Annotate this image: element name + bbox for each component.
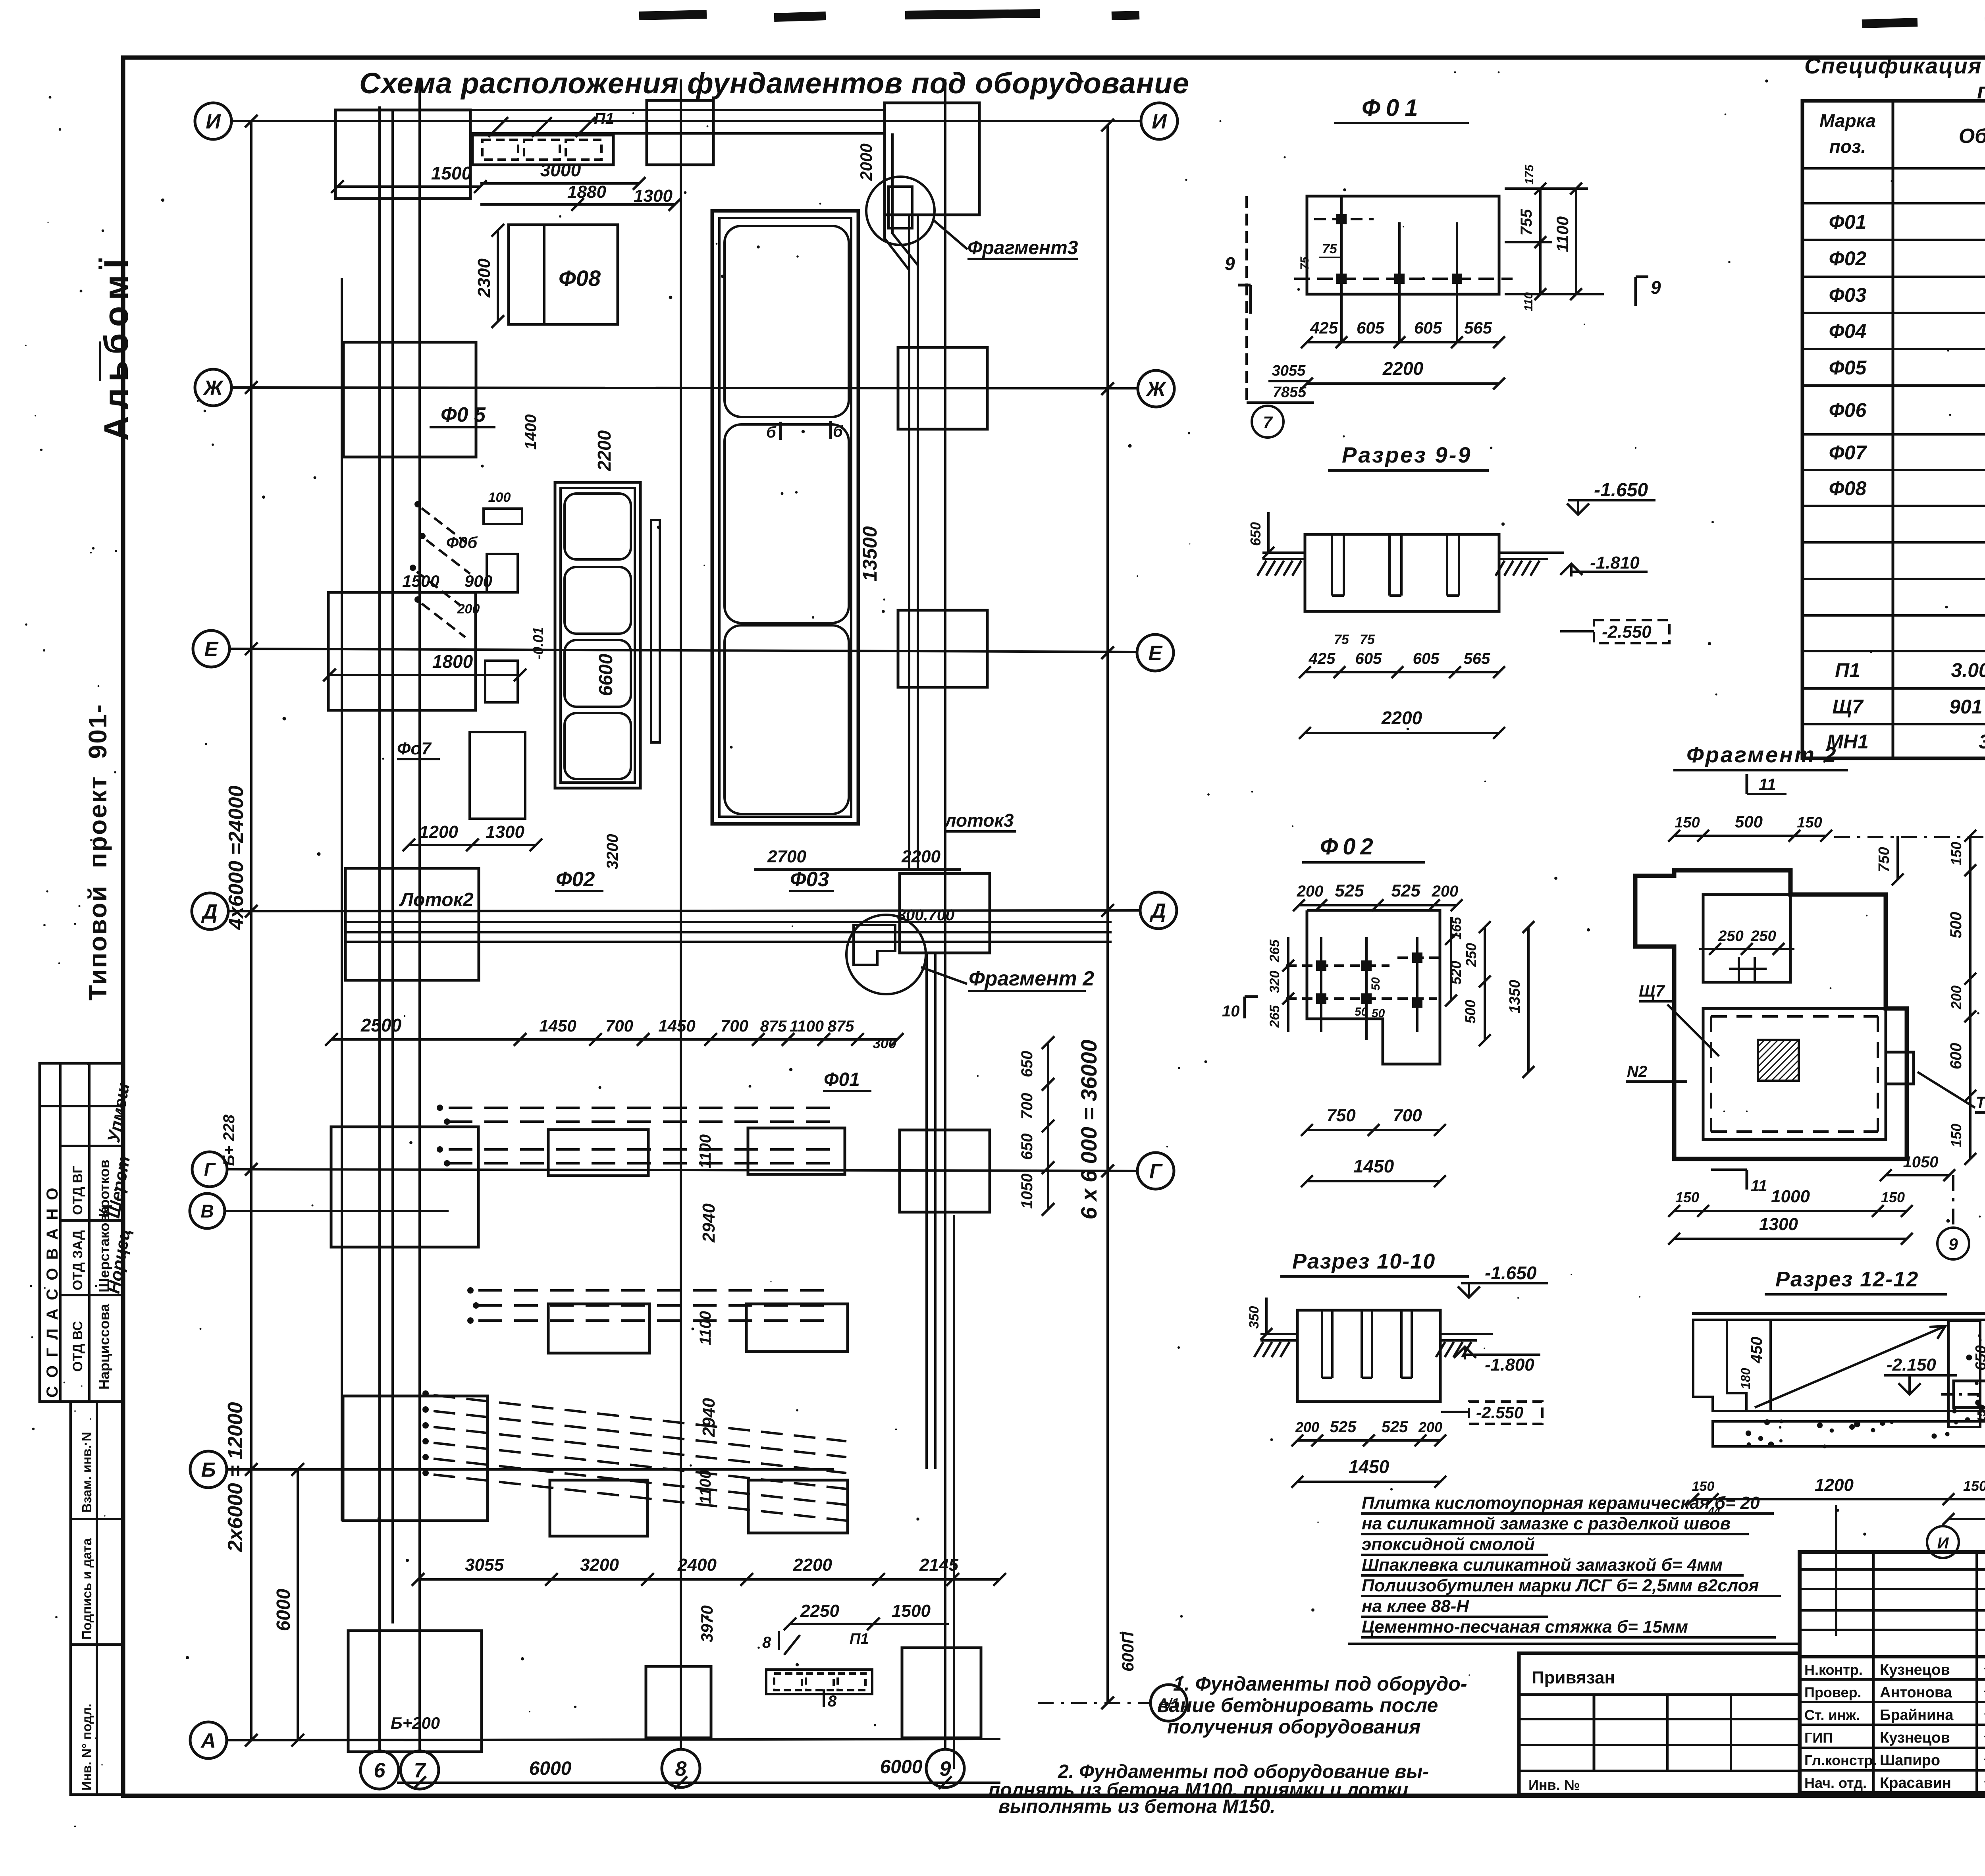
svg-text:8: 8: [828, 1693, 837, 1710]
svg-text:875: 875: [828, 1018, 854, 1035]
svg-text:Ф03: Ф03: [1829, 284, 1867, 306]
svg-text:на клее 88-Н: на клее 88-Н: [1362, 1596, 1469, 1616]
svg-text:1000: 1000: [1771, 1187, 1810, 1206]
svg-text:Спецификация элементов к схеме: Спецификация элементов к схеме расположе…: [1804, 53, 1985, 78]
title block revision rows (upper left): [1800, 1568, 1985, 1571]
svg-text:150: 150: [1881, 1189, 1905, 1205]
section 10-10 level -1.650: [1458, 1286, 1480, 1298]
svg-text:Е: Е: [204, 638, 219, 661]
svg-text:В: В: [200, 1201, 214, 1222]
svg-text:вание бетонировать после: вание бетонировать после: [1157, 1694, 1438, 1716]
pipe drop from И trench (fragment 3 area): [885, 133, 909, 381]
dim 3000 top: [480, 182, 639, 185]
approval table СОГЛАСОВАНО: [40, 1063, 135, 1402]
svg-text:Привязан: Привязан: [1532, 1668, 1615, 1687]
title block outer: [1800, 1552, 1985, 1793]
section 10-10 level -1.800: [1454, 1347, 1476, 1358]
anchor dots group near Ф07: [414, 501, 421, 507]
svg-text:50: 50: [1369, 977, 1382, 991]
leader line from notes to section: [1835, 1505, 1837, 1636]
svg-text:180: 180: [1738, 1368, 1753, 1389]
svg-text:1450: 1450: [539, 1016, 576, 1035]
svg-text:получения оборудования: получения оборудования: [1167, 1716, 1420, 1738]
stray scan marks top edge: [639, 13, 1985, 24]
dim chain bottom of upper half 2500 etc: [331, 1038, 897, 1041]
fragment 2 inner main room: [1703, 1008, 1886, 1139]
svg-text:Фрагмент 2: Фрагмент 2: [969, 967, 1094, 990]
axis И right circle: [1141, 103, 1178, 139]
big tank cell 1: [725, 226, 849, 417]
section 10-10 ground left: [1260, 1333, 1297, 1335]
fragment 2 pit walls outer: [1635, 870, 1907, 1159]
svg-text:И: И: [1937, 1535, 1949, 1552]
svg-text:Лоток2: Лоток2: [399, 889, 474, 910]
svg-text:650: 650: [1973, 1345, 1985, 1370]
svg-text:250: 250: [1750, 928, 1776, 945]
foundation pair row3 right: [748, 1480, 848, 1533]
section 10-10 level -2.550: [1469, 1402, 1542, 1424]
svg-text:9: 9: [1651, 277, 1661, 298]
svg-text:3055: 3055: [465, 1555, 504, 1575]
left overall dimension line: [250, 121, 252, 1740]
column footing И/8: [647, 100, 713, 165]
svg-text:700: 700: [1393, 1106, 1422, 1125]
svg-text:Б: Б: [201, 1459, 216, 1482]
svg-text:3200: 3200: [604, 834, 621, 870]
axis Е right circle: [1137, 634, 1174, 671]
svg-text:150: 150: [1948, 842, 1964, 866]
svg-text:Инв. №: Инв. №: [1528, 1777, 1580, 1793]
plan: horizontal axis И: [232, 120, 1140, 122]
svg-text:-2.550: -2.550: [1602, 622, 1652, 642]
anchor dashed group A: [437, 1105, 443, 1111]
plan: column axis 9: [953, 1215, 955, 1769]
svg-text:Брайнина: Брайнина: [1880, 1707, 1954, 1724]
section 10-10 body: [1297, 1310, 1440, 1402]
foundation rect at Е axis: [328, 592, 476, 710]
big tank outer wall: [712, 211, 858, 824]
column footing 9 bottom: [902, 1648, 981, 1738]
column square Г/9: [900, 1130, 990, 1212]
svg-text:Инв. N° подл.: Инв. N° подл.: [79, 1704, 94, 1791]
svg-text:Д: Д: [201, 900, 218, 924]
detail Ф02 plan outline: [1307, 910, 1440, 1064]
detail Ф02 top dims 200 525 525 200: [1299, 904, 1457, 906]
plan: axis А/1 stub: [1038, 1702, 1151, 1704]
svg-text:1100: 1100: [697, 1470, 714, 1504]
svg-text:4х6000 =24000: 4х6000 =24000: [225, 785, 248, 930]
small foundation below Е: [485, 661, 518, 702]
svg-text:1300: 1300: [486, 822, 524, 842]
dim 2250 1500 bottom: [790, 1623, 949, 1625]
svg-text:Б+200: Б+200: [391, 1714, 440, 1732]
detail Ф02 left dim chain 265 320 265: [1287, 937, 1289, 1032]
svg-text:6000: 6000: [529, 1758, 572, 1779]
svg-text:Е: Е: [1149, 642, 1163, 665]
svg-text:лоток3: лоток3: [944, 810, 1014, 831]
svg-text:75: 75: [1334, 632, 1349, 647]
section 12-12 left wall: [1693, 1320, 1746, 1411]
svg-text:2200: 2200: [901, 847, 940, 866]
plan: column axis 7: [418, 79, 421, 1751]
plan: column axis 6: [378, 106, 381, 1751]
fragment 2 right dim chain: [1969, 836, 1972, 1159]
svg-text:Ф08: Ф08: [559, 266, 601, 291]
section 9-9 level -2.550 dashed box: [1594, 620, 1669, 643]
svg-text:2250: 2250: [800, 1601, 839, 1621]
svg-text:600: 600: [1947, 1043, 1965, 1070]
svg-text:565: 565: [1464, 318, 1492, 337]
svg-text:б: б: [766, 424, 777, 441]
foundation Ф01 row2 right: [746, 1304, 848, 1352]
section 12-12 right wall stippled: [1948, 1321, 1980, 1427]
svg-text:6 х 6 000 = 36000: 6 х 6 000 = 36000: [1076, 1039, 1101, 1219]
svg-text:1800: 1800: [432, 651, 473, 672]
svg-text:150: 150: [1692, 1479, 1715, 1494]
svg-text:1450: 1450: [1349, 1456, 1389, 1477]
svg-text:Ж: Ж: [1145, 378, 1167, 401]
svg-text:165: 165: [1449, 917, 1464, 940]
svg-text:Антонова: Антонова: [1880, 1684, 1952, 1701]
svg-text:Ф01: Ф01: [824, 1069, 860, 1090]
svg-text:50: 50: [1372, 1007, 1385, 1020]
svg-text:Ф02: Ф02: [556, 868, 595, 891]
detail Ф01 dim 2200: [1307, 382, 1499, 385]
fragment 2 hatch square: [1758, 1040, 1799, 1081]
svg-text:1880: 1880: [567, 182, 606, 202]
detail Ф02 right dims 165 520: [1450, 917, 1452, 1001]
svg-text:Фрагмент3: Фрагмент3: [967, 237, 1078, 258]
svg-text:И: И: [206, 110, 221, 133]
svg-text:6000: 6000: [273, 1589, 294, 1631]
svg-text:901 КЖИ. Щ4-03: 901 КЖИ. Щ4-03: [1949, 696, 1985, 718]
svg-text:500: 500: [1462, 1000, 1478, 1024]
fragment 2 top dims 150 500 150: [1674, 835, 1826, 837]
svg-text:605: 605: [1413, 650, 1440, 667]
dim 2300 vertical: [497, 230, 499, 322]
svg-text:525: 525: [1330, 1418, 1357, 1436]
svg-text:13500: 13500: [859, 526, 881, 581]
inventory strip: Взам.инв.N / Подпись и дата / Инв.N подл.: [71, 1402, 123, 1795]
plan: horizontal axis Д: [228, 910, 1141, 911]
lotok2 rect: [345, 868, 479, 980]
svg-text:450: 450: [1748, 1337, 1765, 1364]
project label: Типовой проект 901- (vertical): [83, 703, 112, 1001]
svg-text:200: 200: [1297, 883, 1324, 900]
column square Ж/9: [898, 347, 987, 429]
svg-text:Цементно-песчаная стяжка б=: Цементно-песчаная стяжка б= 15мм: [1362, 1617, 1688, 1637]
small tank outer: [555, 482, 640, 788]
section 12-12 axis circle И: [1927, 1526, 1959, 1558]
svg-text:П1: П1: [850, 1631, 869, 1647]
svg-text:6000: 6000: [880, 1756, 923, 1778]
anchor dashed diagonal group C: [422, 1390, 429, 1397]
section 12-12 diagonal strut: [1755, 1326, 1945, 1407]
fragment 2 anchor marks top room: [1738, 957, 1740, 982]
section 10-10 dims 200 525 525 200: [1297, 1439, 1440, 1442]
svg-text:700: 700: [605, 1016, 633, 1035]
axis Г right circle: [1137, 1153, 1174, 1189]
svg-text:200: 200: [1418, 1419, 1442, 1435]
svg-text:1200: 1200: [419, 822, 458, 842]
svg-text:200: 200: [457, 602, 480, 617]
svg-text:750: 750: [1326, 1106, 1356, 1125]
svg-text:3.006-2 Вып.II-2: 3.006-2 Вып.II-2: [1951, 659, 1985, 681]
foundation rect at И axis cols 6-7: [335, 110, 470, 199]
dim chain 1050 650 700 650 vertical: [1047, 1043, 1049, 1209]
svg-text:2700: 2700: [767, 847, 806, 866]
svg-text:Ф07: Ф07: [1829, 442, 1867, 464]
svg-text:1500: 1500: [892, 1601, 931, 1621]
section 10-10 anchor slots: [1321, 1310, 1323, 1378]
svg-text:320: 320: [1267, 971, 1282, 993]
svg-text:Ст. инж.: Ст. инж.: [1804, 1707, 1860, 1723]
svg-text:1350: 1350: [1507, 980, 1523, 1014]
svg-text:Провер.: Провер.: [1804, 1684, 1862, 1701]
plan: horizontal axis Е: [229, 649, 1136, 652]
svg-text:3000: 3000: [540, 160, 581, 180]
detail Ф01 right dim 755 1100: [1539, 189, 1542, 294]
svg-text:50: 50: [1355, 1005, 1368, 1018]
svg-text:Фрагмент 2: Фрагмент 2: [1686, 742, 1837, 767]
svg-text:поз.: поз.: [1829, 136, 1866, 157]
title block signature rows: [1800, 1678, 1985, 1681]
svg-text:1050: 1050: [1903, 1153, 1939, 1171]
narrow slab right of small tank: [651, 520, 660, 742]
svg-text:1300: 1300: [1759, 1215, 1798, 1234]
fragment 2 axis circle 9: [1937, 1228, 1969, 1259]
svg-text:Плитка кислотоупорная керамиче: Плитка кислотоупорная керамическая б= 20: [1362, 1493, 1760, 1513]
album label: Альбом I (vertical): [97, 253, 135, 441]
svg-text:425: 425: [1310, 318, 1338, 337]
section mark б left: [779, 422, 782, 440]
svg-text:150: 150: [1963, 1478, 1985, 1494]
foundation rect at Г-В axes: [331, 1127, 478, 1247]
svg-text:565: 565: [1464, 650, 1490, 667]
svg-text:Щ7: Щ7: [1639, 981, 1665, 1000]
dim 2700 2200 above Д: [754, 868, 961, 871]
section 9-9 dim 650 vertical: [1267, 512, 1270, 553]
spec table header: [1819, 110, 1985, 157]
svg-text:Нарциссова: Нарциссова: [96, 1303, 112, 1390]
svg-text:Разрез 12-12: Разрез 12-12: [1775, 1267, 1919, 1291]
section 12-12 top slab: [1692, 1312, 1985, 1315]
svg-text:3200: 3200: [580, 1555, 619, 1575]
svg-text:650: 650: [1247, 522, 1264, 546]
dim 1200 1300 under Ф07: [409, 844, 536, 846]
section 9-9 level -1.810: [1560, 564, 1582, 575]
small tank inner: [561, 488, 635, 783]
svg-text:Ф04: Ф04: [1829, 320, 1867, 342]
section 10-10 ground right: [1440, 1333, 1493, 1335]
title block vertical dividers left part: [1872, 1552, 1875, 1793]
svg-text:700: 700: [721, 1016, 748, 1035]
svg-text:Схема расположения фундамент: Схема расположения фундаментов под обору…: [359, 67, 1189, 100]
detail Ф01 axis circle 7: [1252, 406, 1284, 438]
slab П1 top with cells: [472, 135, 613, 165]
slab П1 bottom: [766, 1670, 872, 1694]
svg-text:11: 11: [1759, 775, 1776, 794]
section 12-12 pedestal: [1954, 1381, 1985, 1407]
svg-text:3.400-6/76: 3.400-6/76: [1979, 731, 1985, 753]
svg-text:Ж: Ж: [202, 377, 224, 400]
svg-text:3970: 3970: [698, 1605, 716, 1642]
fragment 2 dims 250 250: [1699, 948, 1794, 950]
section 9-9 ground left: [1262, 551, 1305, 554]
fragment 2 axis Д stub: [1834, 836, 1985, 838]
svg-text:Б+ 228: Б+ 228: [220, 1114, 238, 1166]
svg-text:350: 350: [1247, 1306, 1262, 1329]
dim 1800: [330, 674, 520, 676]
svg-text:1450: 1450: [1353, 1156, 1394, 1176]
svg-text:150: 150: [1675, 1189, 1699, 1205]
svg-text:75: 75: [1360, 632, 1375, 647]
foundation pair row3 left: [550, 1480, 648, 1536]
svg-text:11: 11: [1751, 1177, 1767, 1195]
detail Ф02 anchor squares: [1316, 960, 1326, 971]
svg-text:Обозначение: Обозначение: [1959, 125, 1985, 148]
fragment 2 bubble: [846, 915, 926, 994]
svg-text:-1.800: -1.800: [1485, 1355, 1534, 1375]
section 12-12 bottom slab stippled: [1713, 1421, 1985, 1446]
svg-text:44: 44: [1707, 1505, 1721, 1517]
fragment 2 bottom dim 1050: [1886, 1174, 1949, 1176]
svg-text:875: 875: [760, 1018, 787, 1035]
svg-text:1200: 1200: [1815, 1475, 1854, 1495]
section mark 8 bottom: [778, 1631, 780, 1650]
svg-text:Гл.констр.: Гл.констр.: [1804, 1752, 1877, 1768]
svg-text:Шапиро: Шапиро: [1880, 1752, 1940, 1769]
plan: column axis 8: [680, 79, 682, 1749]
svg-text:2940: 2940: [699, 1203, 719, 1243]
spec table title: [1804, 53, 1985, 103]
svg-text:эпоксидной смолой: эпоксидной смолой: [1362, 1535, 1535, 1554]
big tank cell 3: [725, 625, 849, 814]
trench lines at И axis: [341, 109, 885, 111]
svg-text:ОТД ВГ: ОТД ВГ: [70, 1166, 85, 1215]
svg-text:500: 500: [1735, 812, 1763, 831]
svg-text:150: 150: [1797, 814, 1822, 831]
section 9-9 ground right: [1499, 551, 1564, 554]
svg-text:2200: 2200: [1382, 358, 1424, 379]
svg-text:Фо7: Фо7: [397, 739, 432, 758]
svg-text:2145: 2145: [919, 1555, 958, 1575]
svg-text:Ф0 5: Ф0 5: [441, 403, 486, 426]
svg-text:75: 75: [1322, 241, 1337, 256]
svg-text:1100: 1100: [697, 1311, 714, 1345]
svg-text:650: 650: [1018, 1134, 1036, 1160]
svg-text:1. Фундаменты под оборудо-: 1. Фундаменты под оборудо-: [1173, 1673, 1467, 1695]
foundation Ф07 rect: [470, 732, 525, 819]
fragment 3 bubble circle: [866, 177, 935, 245]
plan: horizontal axis А: [226, 1739, 1000, 1740]
column square Д/9: [900, 873, 990, 953]
svg-text:3055: 3055: [1272, 362, 1306, 379]
svg-text:605: 605: [1357, 318, 1385, 337]
svg-text:ОТД ВС: ОТД ВС: [70, 1321, 85, 1372]
svg-text:-0.01: -0.01: [530, 627, 546, 659]
svg-text:525: 525: [1391, 881, 1420, 900]
svg-text:1100: 1100: [790, 1018, 824, 1035]
svg-text:525: 525: [1382, 1418, 1408, 1436]
fragment 2 panel dashes inner room: [1711, 1015, 1878, 1018]
dim 1880 1300: [480, 203, 675, 206]
spec table grid: [1802, 101, 1985, 758]
section 12-12 bottom dims 150 1200 150: [1693, 1498, 1985, 1500]
svg-text:1300: 1300: [634, 186, 673, 206]
svg-text:75: 75: [1298, 256, 1311, 270]
fragment 2 bottom dims 150 1000 150: [1674, 1210, 1907, 1212]
svg-text:Г: Г: [1149, 1160, 1163, 1183]
fragment 2 bottom dim 1300: [1674, 1238, 1907, 1240]
svg-text:2500: 2500: [360, 1015, 402, 1035]
svg-text:Д: Д: [1149, 900, 1166, 923]
svg-text:2940: 2940: [699, 1398, 719, 1437]
svg-text:Ф06: Ф06: [1829, 399, 1867, 421]
left dim 6000: [297, 1469, 299, 1740]
svg-text:Ф02: Ф02: [1829, 247, 1867, 270]
svg-text:1100: 1100: [1553, 216, 1572, 252]
svg-text:Н.контр.: Н.контр.: [1804, 1662, 1863, 1678]
svg-text:755: 755: [1518, 209, 1535, 235]
svg-text:200: 200: [1295, 1419, 1319, 1435]
section 9-9 body: [1305, 534, 1499, 611]
svg-text:Ф03: Ф03: [790, 868, 829, 891]
svg-text:2400: 2400: [677, 1555, 717, 1575]
svg-text:500: 500: [1947, 912, 1965, 939]
svg-text:2300: 2300: [474, 258, 494, 298]
fragment 2 dim 750 vertical: [1896, 836, 1899, 879]
svg-text:выполнять из бетона М150.: выполнять из бетона М150.: [998, 1796, 1276, 1817]
lotok3 lower continuation: [925, 953, 928, 1469]
foundation Ф01 row1 right: [748, 1128, 845, 1174]
detail Ф01 section mark 9 right: [1634, 277, 1637, 306]
detail Ф02 section mark 10: [1243, 997, 1246, 1018]
column footing 8 bottom: [646, 1666, 711, 1738]
svg-text:Кузнецов: Кузнецов: [1880, 1729, 1950, 1746]
svg-text:100: 100: [488, 490, 511, 505]
plan: horizontal axis В: [225, 1210, 449, 1212]
svg-text:525: 525: [1335, 881, 1364, 900]
svg-text:Полиизобутилен марки ЛСГ б=: Полиизобутилен марки ЛСГ б= 2,5мм в2слоя: [1362, 1576, 1759, 1595]
svg-text:150: 150: [1675, 814, 1700, 831]
svg-text:Кузнецов: Кузнецов: [1880, 1662, 1950, 1678]
privjazan table: [1519, 1653, 1800, 1795]
svg-text:П1: П1: [1835, 659, 1860, 681]
svg-text:8: 8: [762, 1634, 771, 1651]
svg-text:2200: 2200: [594, 430, 615, 471]
svg-text:150: 150: [1975, 1404, 1985, 1423]
svg-text:2000: 2000: [857, 143, 875, 181]
svg-text:6600: 6600: [595, 654, 617, 696]
small tank cells: [565, 494, 631, 559]
foundation Ф01 row1 left: [548, 1130, 648, 1176]
foundation Ф01 row2 left: [548, 1304, 649, 1353]
spec table rows: [1827, 169, 1985, 753]
detail Ф01 anchor squares: [1336, 214, 1347, 224]
svg-text:1050: 1050: [1018, 1174, 1036, 1209]
svg-text:Ф05: Ф05: [1829, 357, 1867, 379]
section 9-9 level -1.650: [1567, 503, 1589, 515]
svg-text:200: 200: [1948, 985, 1964, 1010]
svg-text:2200: 2200: [1381, 708, 1422, 728]
foundation rect at Ж axis: [343, 342, 476, 457]
svg-text:Разрез 9-9: Разрез 9-9: [1342, 442, 1472, 467]
svg-text:900: 900: [464, 572, 492, 590]
foundation rect at Б-А left: [348, 1631, 482, 1752]
svg-text:Красавин: Красавин: [1880, 1775, 1951, 1791]
svg-text:Ф08: Ф08: [1829, 477, 1867, 499]
